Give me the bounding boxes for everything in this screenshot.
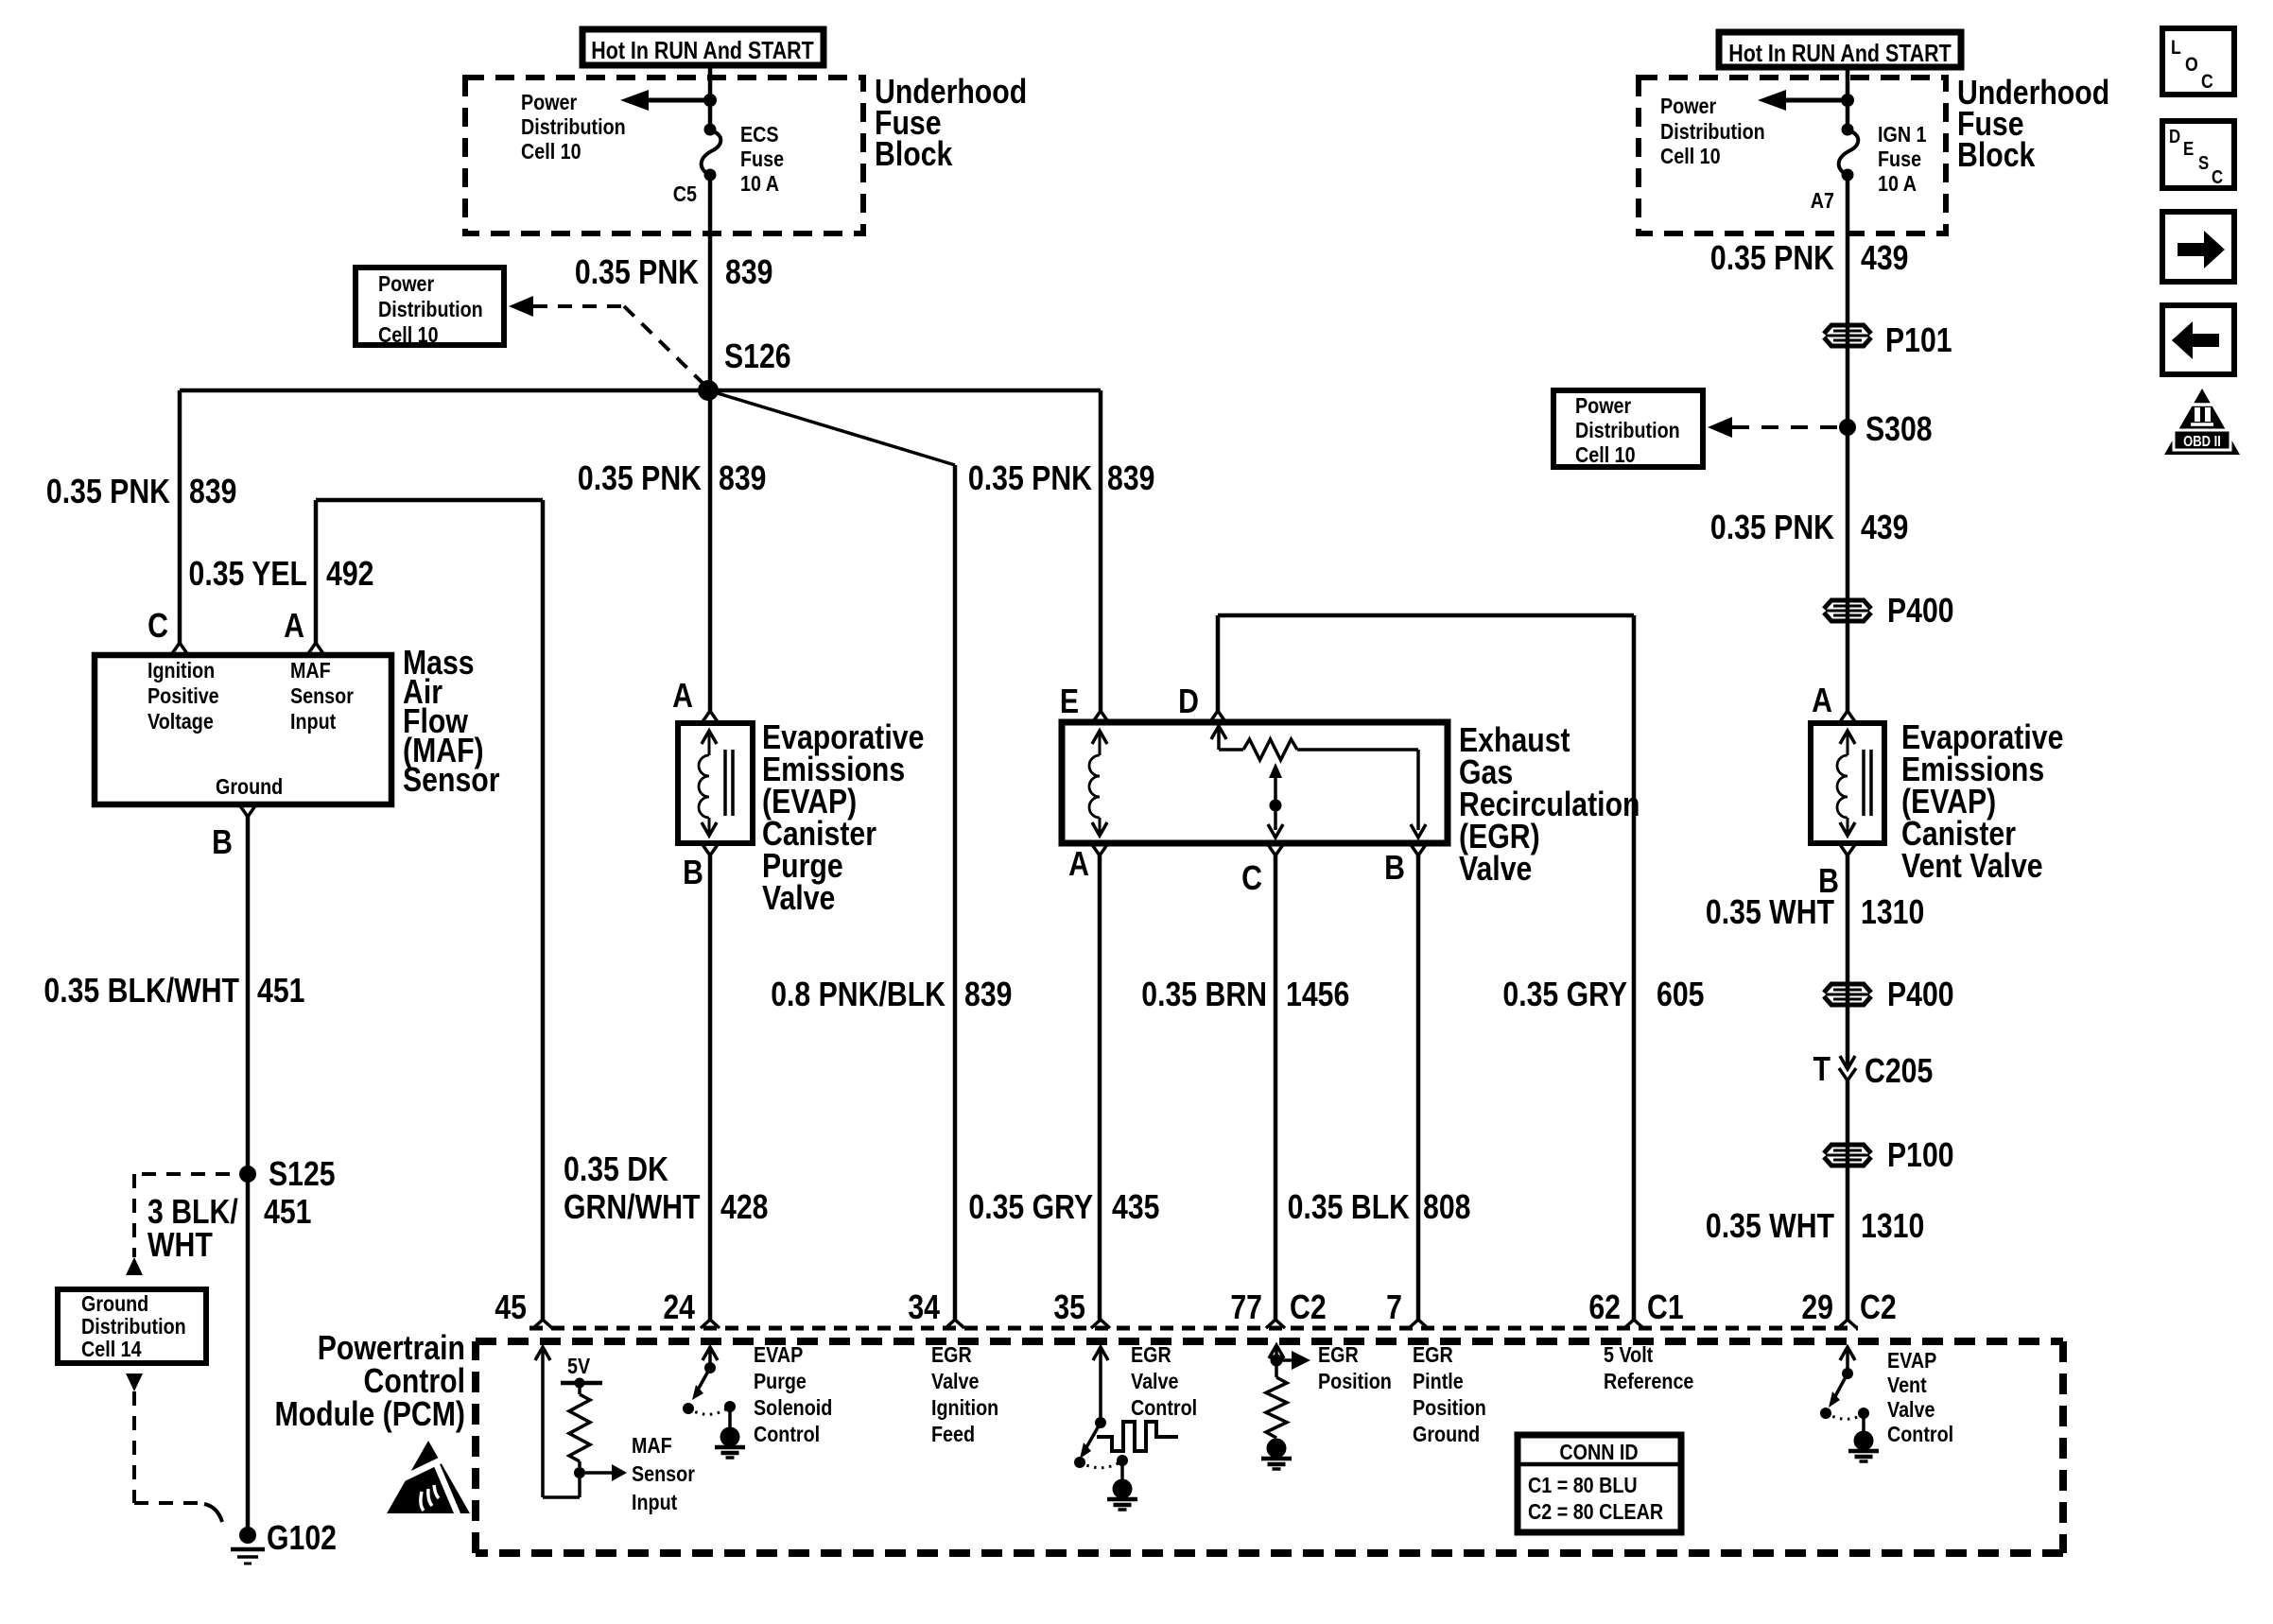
svg-text:T: T <box>1813 1051 1831 1089</box>
svg-text:35: 35 <box>1053 1289 1085 1327</box>
svg-text:0.35 WHT: 0.35 WHT <box>1706 1208 1834 1246</box>
svg-text:S125: S125 <box>269 1156 336 1194</box>
svg-text:B: B <box>1384 850 1405 888</box>
svg-text:Pintle: Pintle <box>1413 1368 1464 1393</box>
svg-text:EGR: EGR <box>1131 1341 1171 1367</box>
svg-text:Ignition: Ignition <box>931 1394 998 1420</box>
svg-text:Reference: Reference <box>1604 1368 1693 1393</box>
svg-text:Power: Power <box>1575 392 1632 418</box>
svg-text:Input: Input <box>632 1489 677 1514</box>
svg-text:435: 435 <box>1112 1189 1159 1227</box>
svg-text:C2: C2 <box>1860 1289 1897 1327</box>
svg-text:C1: C1 <box>1647 1289 1684 1327</box>
svg-text:Valve: Valve <box>1131 1368 1178 1393</box>
svg-text:Valve: Valve <box>1887 1396 1935 1422</box>
svg-text:0.35 BRN: 0.35 BRN <box>1141 976 1267 1014</box>
svg-text:Control: Control <box>1887 1421 1953 1446</box>
svg-text:MAF: MAF <box>632 1432 672 1458</box>
svg-text:Control: Control <box>754 1421 820 1446</box>
svg-text:Position: Position <box>1413 1394 1486 1420</box>
svg-text:451: 451 <box>257 973 304 1011</box>
svg-text:0.35 PNK: 0.35 PNK <box>575 254 699 292</box>
svg-text:A: A <box>672 678 693 716</box>
svg-text:1456: 1456 <box>1286 976 1349 1014</box>
svg-text:1310: 1310 <box>1861 894 1924 932</box>
svg-text:C1 = 80 BLU: C1 = 80 BLU <box>1528 1472 1638 1497</box>
svg-text:839: 839 <box>719 460 766 498</box>
svg-text:Module (PCM): Module (PCM) <box>274 1396 465 1434</box>
svg-text:Feed: Feed <box>931 1421 975 1446</box>
svg-text:Power: Power <box>378 270 435 296</box>
svg-text:34: 34 <box>908 1289 940 1327</box>
svg-text:C5: C5 <box>673 181 697 206</box>
svg-text:Distribution: Distribution <box>1660 118 1765 144</box>
svg-text:Cell 10: Cell 10 <box>521 138 581 164</box>
svg-text:Valve: Valve <box>762 880 835 918</box>
svg-text:24: 24 <box>663 1289 695 1327</box>
svg-text:Cell 10: Cell 10 <box>378 321 439 347</box>
svg-text:0.35 WHT: 0.35 WHT <box>1706 894 1834 932</box>
svg-text:ECS: ECS <box>740 121 779 147</box>
svg-text:P400: P400 <box>1887 976 1954 1014</box>
svg-text:0.35 YEL: 0.35 YEL <box>189 556 307 594</box>
svg-text:Cell 10: Cell 10 <box>1575 441 1636 467</box>
svg-text:10 A: 10 A <box>1878 170 1917 196</box>
svg-text:Control: Control <box>1131 1394 1197 1420</box>
svg-text:Cell 10: Cell 10 <box>1660 143 1721 168</box>
svg-text:EGR: EGR <box>1318 1341 1359 1367</box>
svg-text:Valve: Valve <box>1459 851 1532 889</box>
svg-text:5 Volt: 5 Volt <box>1604 1341 1653 1367</box>
svg-text:Solenoid: Solenoid <box>754 1394 832 1420</box>
svg-text:Fuse: Fuse <box>1878 146 1921 171</box>
svg-text:77: 77 <box>1230 1289 1262 1327</box>
svg-text:CONN ID: CONN ID <box>1559 1439 1638 1464</box>
svg-text:Hot In RUN And START: Hot In RUN And START <box>1728 40 1952 66</box>
svg-text:Distribution: Distribution <box>378 296 483 321</box>
svg-text:MAF: MAF <box>290 657 331 682</box>
svg-text:Ground: Ground <box>216 773 283 799</box>
svg-text:Power: Power <box>521 89 578 114</box>
svg-text:C: C <box>147 608 168 646</box>
svg-text:S308: S308 <box>1865 411 1933 449</box>
svg-text:C205: C205 <box>1865 1053 1933 1091</box>
svg-text:Power: Power <box>1660 93 1717 118</box>
svg-text:GRN/WHT: GRN/WHT <box>564 1189 700 1227</box>
svg-text:EVAP: EVAP <box>1887 1347 1936 1373</box>
svg-text:Block: Block <box>1957 137 2036 175</box>
svg-text:L: L <box>2171 37 2181 60</box>
svg-text:P101: P101 <box>1885 322 1952 360</box>
svg-text:E: E <box>1060 683 1079 721</box>
svg-text:0.8 PNK/BLK: 0.8 PNK/BLK <box>771 976 946 1014</box>
svg-text:A: A <box>1812 682 1832 720</box>
svg-text:0.35 DK: 0.35 DK <box>564 1151 668 1189</box>
svg-text:439: 439 <box>1861 510 1908 547</box>
svg-text:605: 605 <box>1657 976 1704 1014</box>
svg-text:EVAP: EVAP <box>754 1341 803 1367</box>
svg-text:Hot In RUN And START: Hot In RUN And START <box>591 37 814 63</box>
svg-text:C: C <box>2201 71 2213 94</box>
svg-text:Purge: Purge <box>754 1368 807 1393</box>
svg-text:Voltage: Voltage <box>147 708 214 734</box>
svg-text:A: A <box>1068 846 1089 884</box>
svg-text:Vent Valve: Vent Valve <box>1901 848 2043 886</box>
svg-text:C2: C2 <box>1290 1289 1327 1327</box>
svg-text:0.35 BLK: 0.35 BLK <box>1288 1189 1410 1227</box>
svg-text:Distribution: Distribution <box>1575 417 1680 442</box>
svg-text:C: C <box>2212 166 2223 188</box>
svg-text:Sensor: Sensor <box>632 1460 695 1486</box>
svg-text:Positive: Positive <box>147 682 219 708</box>
svg-text:OBD II: OBD II <box>2183 434 2221 450</box>
svg-text:C: C <box>1241 860 1262 898</box>
svg-text:1310: 1310 <box>1861 1208 1924 1246</box>
svg-text:428: 428 <box>720 1189 768 1227</box>
svg-text:IGN 1: IGN 1 <box>1878 121 1927 147</box>
svg-text:EGR: EGR <box>1413 1341 1453 1367</box>
svg-text:A7: A7 <box>1811 187 1834 213</box>
svg-text:Sensor: Sensor <box>290 682 354 708</box>
svg-text:808: 808 <box>1423 1189 1470 1227</box>
svg-text:Ground: Ground <box>1413 1421 1480 1446</box>
svg-text:E: E <box>2183 138 2194 160</box>
svg-text:0.35 GRY: 0.35 GRY <box>968 1189 1093 1227</box>
svg-text:0.35 PNK: 0.35 PNK <box>1710 510 1834 547</box>
svg-text:Input: Input <box>290 708 336 734</box>
svg-text:7: 7 <box>1386 1289 1402 1327</box>
svg-text:0.35 PNK: 0.35 PNK <box>1710 240 1834 278</box>
svg-text:0.35 PNK: 0.35 PNK <box>578 460 702 498</box>
svg-text:B: B <box>212 824 233 862</box>
svg-text:P100: P100 <box>1887 1137 1954 1175</box>
svg-text:0.35 BLK/WHT: 0.35 BLK/WHT <box>43 973 239 1011</box>
svg-text:10 A: 10 A <box>740 170 779 196</box>
svg-text:S: S <box>2198 152 2209 174</box>
svg-text:0.35 GRY: 0.35 GRY <box>1502 976 1627 1014</box>
svg-text:Sensor: Sensor <box>403 762 500 800</box>
svg-text:C2 = 80 CLEAR: C2 = 80 CLEAR <box>1528 1498 1663 1524</box>
svg-text:Ignition: Ignition <box>147 657 215 682</box>
svg-text:839: 839 <box>964 976 1012 1014</box>
svg-text:Block: Block <box>875 136 953 174</box>
svg-text:Cell 14: Cell 14 <box>81 1336 142 1361</box>
svg-text:Fuse: Fuse <box>740 146 784 171</box>
svg-text:O: O <box>2185 54 2198 77</box>
svg-text:B: B <box>683 855 703 892</box>
svg-text:D: D <box>1178 683 1199 721</box>
svg-text:G102: G102 <box>267 1520 337 1558</box>
svg-text:29: 29 <box>1801 1289 1833 1327</box>
svg-text:D: D <box>2169 126 2180 147</box>
svg-text:439: 439 <box>1861 240 1908 278</box>
svg-text:839: 839 <box>1107 460 1154 498</box>
svg-text:5V: 5V <box>567 1353 591 1378</box>
svg-text:Distribution: Distribution <box>521 113 626 139</box>
svg-text:Vent: Vent <box>1887 1372 1927 1397</box>
svg-text:45: 45 <box>495 1289 527 1327</box>
svg-text:EGR: EGR <box>931 1341 972 1367</box>
svg-text:S126: S126 <box>724 338 791 376</box>
svg-text:P400: P400 <box>1887 593 1954 631</box>
svg-text:62: 62 <box>1588 1289 1621 1327</box>
svg-text:A: A <box>284 608 304 646</box>
svg-text:839: 839 <box>189 474 236 511</box>
svg-text:Position: Position <box>1318 1368 1392 1393</box>
svg-text:839: 839 <box>725 254 772 292</box>
svg-text:451: 451 <box>264 1194 311 1232</box>
svg-text:0.35 PNK: 0.35 PNK <box>968 460 1092 498</box>
svg-text:WHT: WHT <box>147 1227 213 1265</box>
svg-text:492: 492 <box>326 556 373 594</box>
svg-text:0.35 PNK: 0.35 PNK <box>46 474 170 511</box>
svg-text:Valve: Valve <box>931 1368 979 1393</box>
